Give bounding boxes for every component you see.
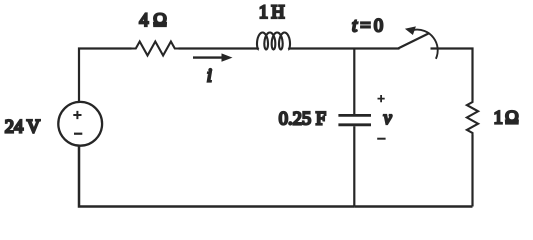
bottom wire right segment bbox=[354, 205, 472, 208]
switch arrowhead bbox=[405, 26, 416, 35]
wire switch contact to top-right corner and down to resistor bbox=[431, 49, 473, 101]
source minus sign bbox=[74, 133, 82, 135]
svg-text:i: i bbox=[207, 67, 212, 87]
wire inductor to switch pivot (passes capacitor junction node) bbox=[289, 47, 400, 49]
svg-text:1 H: 1 H bbox=[259, 3, 285, 23]
resistor R1 4 ohm zigzag bbox=[132, 42, 180, 56]
wire left vertical + top-left segment to resistor bbox=[79, 49, 132, 102]
bottom wire left segment bbox=[79, 146, 354, 207]
switch motion arc bbox=[414, 30, 438, 59]
wire resistor to inductor bbox=[179, 47, 258, 49]
svg-text:v: v bbox=[384, 109, 393, 129]
current arrow i bbox=[193, 56, 224, 58]
source plus sign bbox=[73, 111, 81, 119]
svg-text:4 Ω: 4 Ω bbox=[139, 11, 167, 31]
capacitor C1 0.25 F plates bbox=[338, 115, 371, 124]
wire resistor to bottom-right corner bbox=[471, 135, 473, 207]
voltage source VS1 24 V circle bbox=[58, 102, 102, 146]
resistor R2 1 ohm vertical zigzag bbox=[467, 100, 478, 135]
capacitor polarity plus sign bbox=[378, 95, 385, 102]
capacitor branch wire top bbox=[353, 49, 355, 115]
capacitor polarity minus sign bbox=[377, 138, 385, 140]
svg-text:24 V: 24 V bbox=[5, 117, 41, 137]
svg-text:1 Ω: 1 Ω bbox=[494, 109, 519, 129]
capacitor branch wire bottom bbox=[353, 126, 355, 206]
inductor L1 1 H coil bbox=[257, 33, 290, 50]
svg-text:0.25 F: 0.25 F bbox=[279, 110, 326, 130]
switch SW1 blade (opens at t=0) bbox=[399, 33, 430, 48]
svg-text:t = 0: t = 0 bbox=[352, 17, 383, 37]
